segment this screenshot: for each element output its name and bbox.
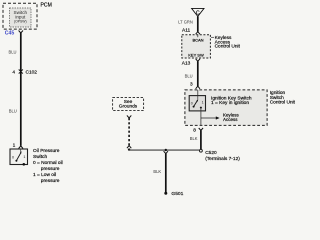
see grounds box (113, 98, 144, 111)
svg-text:BLK: BLK (153, 169, 161, 174)
svg-text:BCAN: BCAN (192, 37, 203, 42)
wire BLU from C45 to oil pressure switch (20, 33, 22, 146)
page connector triangle C (192, 8, 204, 16)
svg-text:BLU: BLU (9, 50, 17, 55)
label tick (211, 36, 214, 38)
svg-text:(OPSW): (OPSW) (14, 20, 27, 24)
ignition key switch label (211, 96, 252, 107)
svg-text:G501: G501 (171, 191, 183, 197)
svg-text:pressure: pressure (41, 166, 60, 172)
chevron at ground bus (127, 146, 131, 149)
ground bus wire (129, 149, 200, 151)
keyless access control unit label (215, 35, 241, 50)
svg-text:4: 4 (12, 70, 15, 76)
svg-text:Control Unit: Control Unit (270, 99, 296, 105)
svg-text:KEY SW: KEY SW (188, 52, 204, 57)
connector A11 chevron (196, 32, 200, 35)
svg-text:1: 1 (13, 142, 16, 148)
svg-text:0 = Normal oil: 0 = Normal oil (33, 160, 63, 166)
connector C520 terminal circle (200, 149, 203, 152)
svg-text:1 = Key in ignition: 1 = Key in ignition (211, 100, 249, 106)
svg-text:Grounds: Grounds (119, 104, 138, 110)
svg-text:BLU: BLU (9, 109, 17, 114)
node junction left (128, 148, 130, 150)
svg-text:LT GRN: LT GRN (178, 20, 193, 25)
connector chevron G501 branch (164, 151, 168, 153)
svg-text:BLU: BLU (185, 73, 193, 78)
connector C102 inline symbol (19, 70, 23, 72)
wire BLU keyless to ignition (197, 61, 199, 86)
svg-text:Oil Pressure: Oil Pressure (33, 148, 60, 154)
svg-text:C520: C520 (205, 150, 217, 156)
wire BLK to C520 (200, 130, 202, 149)
connector chevron pin 3 (196, 86, 200, 89)
connector A13 chevron (196, 59, 200, 61)
svg-text:PCM: PCM (41, 3, 52, 9)
oil pressure switch text (33, 148, 63, 184)
svg-text:A11: A11 (182, 28, 191, 34)
PCM dashed box (3, 3, 37, 29)
svg-text:0: 0 (12, 156, 14, 160)
connector chevron pin 8 (199, 128, 203, 130)
svg-text:Switch: Switch (33, 154, 47, 160)
oil pressure switch S1 (10, 149, 28, 166)
wire BLK to G501 (165, 154, 167, 193)
svg-text:Control Unit: Control Unit (215, 44, 241, 50)
svg-text:1 = Low oil: 1 = Low oil (33, 172, 56, 178)
svg-text:A13: A13 (182, 61, 191, 67)
svg-text:8: 8 (193, 127, 196, 133)
ignition switch control unit box (185, 90, 267, 126)
dashed ground reference wire (128, 118, 130, 146)
ground G501 (164, 192, 167, 195)
keyless access arrow (201, 117, 216, 119)
connector chevron at oil pressure switch (19, 146, 23, 149)
wire from switch contact to pin 8 (200, 108, 202, 118)
svg-text:3: 3 (190, 82, 193, 88)
svg-text:C: C (196, 10, 200, 16)
svg-text:0: 0 (191, 101, 193, 105)
node junction G501 branch (165, 149, 167, 151)
svg-text:pressure: pressure (41, 178, 60, 184)
wire LT GRN from triangle to keyless unit (197, 16, 199, 31)
svg-text:(Terminals 7-12): (Terminals 7-12) (205, 156, 240, 162)
svg-text:Access: Access (223, 117, 238, 122)
svg-text:1: 1 (202, 101, 204, 105)
ignition switch control unit label (270, 90, 296, 105)
keyless access control unit box (182, 35, 211, 58)
keyless access arrow label (223, 113, 240, 122)
ignition key switch SW1 (189, 90, 205, 111)
svg-text:C102: C102 (26, 70, 38, 76)
switch input block (OPSW) (10, 8, 32, 27)
svg-text:C45: C45 (5, 30, 15, 36)
connector C45 chevron (19, 31, 23, 34)
svg-text:1: 1 (23, 155, 25, 159)
svg-text:BLK: BLK (190, 136, 198, 141)
chevron below see grounds (127, 115, 131, 118)
